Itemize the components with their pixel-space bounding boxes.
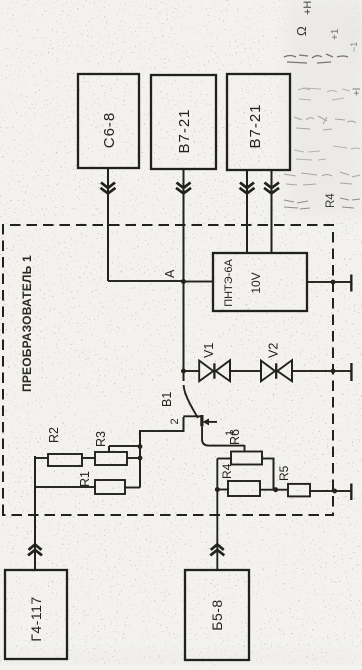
instrument box Б5-8 [185, 570, 249, 660]
instrument box С6-8 [78, 74, 139, 168]
emitter arrow into bar [207, 421, 217, 423]
svg-text:V1: V1 [202, 343, 216, 358]
svg-text:Б5-8: Б5-8 [209, 599, 225, 630]
svg-text:V2: V2 [267, 343, 281, 358]
chevron (left-pointing) [176, 183, 191, 194]
junction dots on base node [138, 456, 143, 461]
wire base node to transistor base [140, 417, 184, 431]
svg-text:+l: +l [352, 88, 362, 96]
pencil margin notes (drawn in portrait space, top-right of scan) [284, 1, 362, 209]
wires В7-21 lower to ПНТЭ-6А [246, 170, 248, 253]
chevron (left-pointing) [101, 183, 116, 194]
collector lead (slight curve then straight diagonal) [184, 385, 198, 418]
svg-text:В7-21: В7-21 [176, 108, 193, 153]
wire Г4-117 to divider [34, 487, 36, 570]
wire ПНТЭ-6А to ground rail [307, 281, 351, 283]
R3 wiper tap [109, 446, 140, 452]
svg-text:ПРЕОБРАЗОВАТЕЛЬ 1: ПРЕОБРАЗОВАТЕЛЬ 1 [20, 255, 34, 392]
svg-text:Г4-117: Г4-117 [28, 596, 44, 641]
svg-text:A: A [163, 269, 177, 278]
wire V2 to ground rail [292, 370, 351, 372]
resistor R3 [95, 452, 127, 465]
emitter tap into R6 [244, 445, 246, 452]
junction dot [273, 487, 278, 492]
wire R1 branch [35, 486, 140, 489]
chevron into converter (right-pointing) [28, 544, 42, 555]
svg-text:В1: В1 [160, 392, 174, 407]
svg-text:+H: +H [302, 1, 314, 15]
svg-text:Ω: Ω [294, 26, 309, 36]
svg-text:~1: ~1 [349, 42, 359, 52]
block ПНТЭ-6А 10V [213, 253, 307, 311]
wire R6 bottom to node [262, 459, 274, 490]
wire node A down to ПНТЭ-6А [184, 281, 214, 283]
wire to R4 [217, 489, 228, 491]
pencil note row 1 [284, 54, 348, 63]
instrument box В7-21 (lower) [227, 74, 290, 170]
wire С6-8 to node A [108, 168, 184, 281]
resistor R1 [95, 480, 125, 494]
node line top (R1/R2 input) [34, 456, 36, 487]
svg-text:С6-8: С6-8 [101, 112, 118, 149]
resistor R2 [48, 454, 82, 466]
diode V1 (bidirectional) [199, 343, 230, 382]
wire R2 branch [35, 457, 140, 459]
svg-text:В7-21: В7-21 [247, 103, 264, 148]
node A [181, 279, 186, 284]
wire R6 top to rail [217, 458, 231, 460]
diode branch from collector rail [181, 369, 186, 374]
wire node A to В7-21 upper [183, 169, 185, 282]
diode V2 (bidirectional) [261, 343, 292, 382]
ground terminal [350, 484, 352, 501]
pencil note row 5 [284, 172, 360, 185]
ground terminal [350, 363, 352, 381]
emitter lead [202, 426, 244, 445]
pencil note row 6 [284, 198, 360, 209]
resistor R5 [288, 484, 310, 497]
ground terminal [350, 275, 352, 292]
wire Б5-8 to emitter network [216, 459, 218, 571]
pencil note row 4 [294, 146, 360, 160]
base lead vertical into bar [183, 415, 200, 417]
main collector rail from node A [183, 282, 185, 382]
svg-text:R4: R4 [325, 193, 337, 208]
border crossing dot [331, 280, 336, 285]
svg-text:R3: R3 [94, 431, 108, 447]
transistor B1 [160, 385, 245, 446]
node line bottom (base node) [139, 430, 141, 488]
svg-text:+1: +1 [330, 28, 341, 40]
pencil note row 3 [294, 116, 356, 130]
svg-text:R1: R1 [78, 471, 92, 487]
chevron into converter (right-pointing) [210, 544, 224, 555]
instrument box В7-21 (upper) [151, 75, 216, 169]
svg-text:R5: R5 [277, 465, 291, 481]
junction dot [215, 487, 220, 492]
svg-text:10V: 10V [249, 272, 263, 293]
instrument box Г4-117 [5, 570, 67, 659]
svg-text:2: 2 [169, 418, 181, 424]
resistor R4 [228, 481, 260, 496]
dashed enclosure ПРЕОБРАЗОВАТЕЛЬ 1 [3, 225, 333, 515]
svg-text:R4: R4 [220, 463, 234, 479]
svg-text:R6: R6 [228, 429, 242, 445]
resistor R6 [231, 452, 262, 465]
wire R5 to ground rail [310, 490, 351, 492]
svg-text:ПНТЭ-6А: ПНТЭ-6А [223, 259, 235, 307]
base bar (thick) [200, 415, 203, 426]
svg-text:R2: R2 [47, 427, 61, 443]
pencil note row 2 [298, 88, 350, 100]
